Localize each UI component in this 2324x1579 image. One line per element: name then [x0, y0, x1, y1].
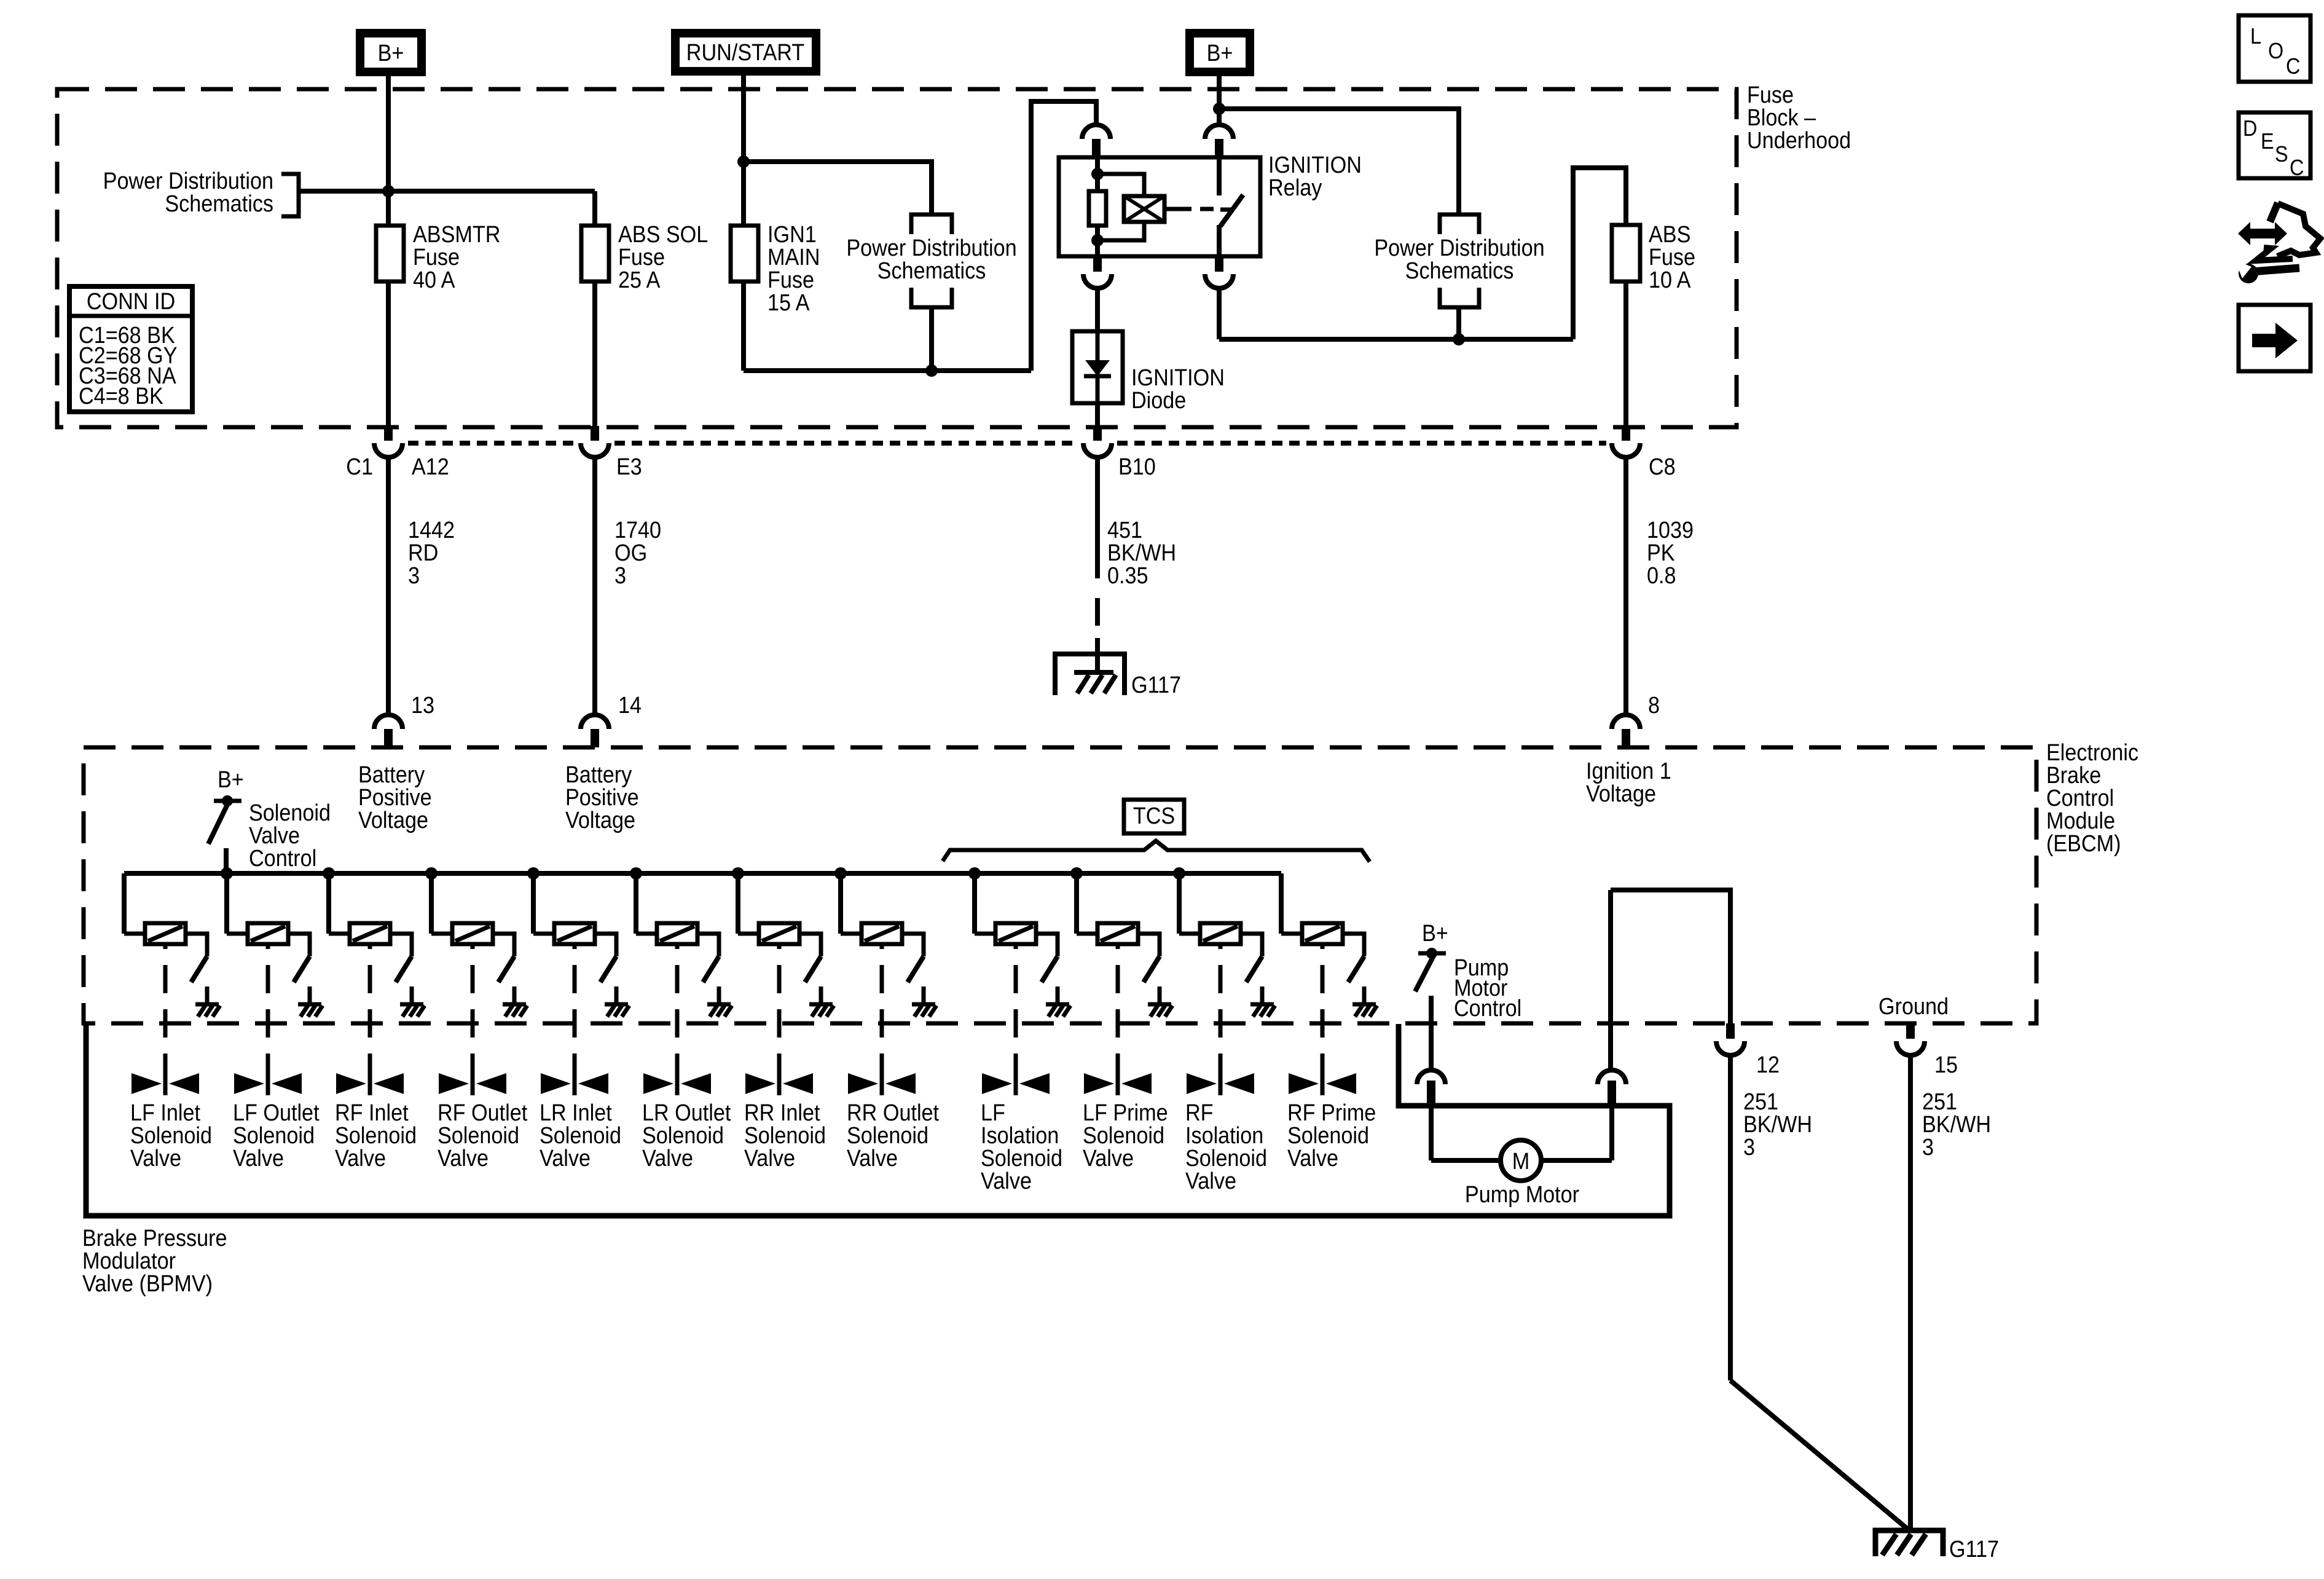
wire ABS SOL fuse to connector E3: [592, 282, 597, 427]
svg-text:L: L: [2250, 24, 2261, 49]
B+ flag: pump motor control: [1422, 919, 1448, 946]
label: LF Prime Solenoid valve: [1083, 1099, 1168, 1171]
wire B+ right branch: [1219, 109, 1459, 215]
wire B+ down to ABSMTR fuse: [386, 72, 391, 226]
label: Electronic Brake Control Module (EBCM): [2046, 739, 2138, 856]
TCS brace: [943, 841, 1370, 862]
valve symbol 9: [982, 1073, 1012, 1094]
TCS box: [1124, 800, 1184, 833]
ground (chassis) 6: [707, 1002, 731, 1007]
svg-text:8: 8: [1648, 691, 1660, 718]
svg-text:B10: B10: [1118, 453, 1156, 479]
valve symbol 3: [336, 1073, 366, 1094]
wire to valve 7 (dashed): [777, 944, 782, 1072]
ground (chassis) 7: [809, 1002, 833, 1007]
svg-text:E3: E3: [616, 453, 642, 479]
switch 10: [1144, 956, 1160, 982]
svg-text:CONN ID: CONN ID: [87, 288, 175, 314]
switch 12: [1348, 956, 1364, 982]
icon: schematic navigation (arrows + wrench): [2238, 222, 2287, 245]
svg-text:M: M: [1512, 1148, 1529, 1174]
wire 251 BK/WH 3 (pin 12): [1728, 1055, 1733, 1380]
component box Power Distribution Schematics (right): [1440, 215, 1479, 234]
relay actuation dashed link: [1164, 207, 1178, 211]
valve symbol 1: [132, 1073, 162, 1094]
ground G117 (lower): [1875, 1530, 1943, 1556]
svg-text:B+: B+: [1422, 919, 1448, 946]
pump motor M: [1429, 1106, 1434, 1160]
power flag RUN/START: [675, 33, 816, 71]
BPMV box outline: [86, 1024, 1670, 1216]
wire to valve 2 (dashed): [266, 944, 270, 1072]
solenoid driver 5 (LR Inlet Solenoid): [527, 867, 540, 880]
valve symbol 7: [745, 1073, 775, 1094]
svg-text:TCS: TCS: [1133, 802, 1175, 829]
icon: DESC box: [2239, 112, 2310, 178]
wire relay coil to diode: [1095, 288, 1100, 331]
wire to valve 5 (dashed): [573, 944, 577, 1072]
svg-text:E: E: [2261, 129, 2274, 154]
wire to valve 3 (dashed): [368, 944, 372, 1072]
valve symbol 8: [848, 1073, 878, 1094]
wire to valve 12 (dashed): [1321, 944, 1325, 1072]
fuse ABSMTR 40 A: [376, 226, 404, 282]
wire ABSMTR fuse to connector C1: [386, 282, 391, 427]
wire up to ignition relay coil: [1031, 101, 1096, 371]
connector B10: [1093, 426, 1102, 441]
solenoid driver 2 (LF Outlet Solenoid): [221, 867, 233, 880]
valve symbol 12: [1289, 1073, 1319, 1094]
label: Brake Pressure Modulator Valve (BPMV): [82, 1224, 227, 1296]
solenoid driver 8 (RR Outlet Solenoid): [834, 867, 847, 880]
wire RUN/START down: [741, 71, 746, 226]
valve symbol 6: [643, 1073, 673, 1094]
fuse ABS SOL 25 A: [581, 226, 609, 282]
wire bracket to ABS SOL branch: [299, 189, 595, 194]
switch 2: [294, 956, 310, 982]
solenoid driver 9 (LF Isolation): [968, 867, 981, 880]
ground (chassis) 4: [503, 1002, 526, 1007]
svg-text:Ground: Ground: [1878, 993, 1949, 1019]
wire to valve 9 (dashed): [1014, 944, 1018, 1072]
icon: LOC box: [2239, 15, 2310, 82]
ground (chassis) 11: [1250, 1002, 1274, 1007]
solenoid driver 3 (RF Inlet Solenoid): [323, 867, 335, 880]
wire to valve 8 (dashed): [880, 944, 884, 1072]
solenoid driver 10 (LF Prime Solenoid): [1070, 867, 1083, 880]
connector row dotted line (C1/C2 68-way): [408, 441, 575, 446]
EBCM pin 8: [1612, 715, 1640, 729]
wire 1740 OG 3: [592, 457, 597, 715]
switch 11: [1246, 956, 1262, 982]
connector C8: [1622, 426, 1630, 441]
solenoid driver 11 (RF Isolation): [1173, 867, 1185, 880]
label: Ignition 1 Voltage: [1586, 757, 1671, 806]
node: RUN/START junction: [737, 156, 750, 168]
svg-text:D: D: [2243, 116, 2257, 141]
connector: relay coil terminal (bottom): [1093, 256, 1102, 272]
node: B+ / Power Distribution junction: [382, 185, 395, 197]
label: LF Inlet Solenoid valve: [130, 1099, 212, 1171]
label: RF Prime Solenoid valve: [1287, 1099, 1376, 1171]
EBCM pin 15: [1906, 1023, 1915, 1039]
fuse IGN1 MAIN 15 A: [731, 226, 758, 282]
svg-text:C1: C1: [346, 453, 373, 479]
svg-text:A12: A12: [412, 453, 449, 479]
svg-text:C: C: [2286, 54, 2300, 79]
switch 1: [191, 956, 207, 982]
diode IGNITION (boxed): [1072, 331, 1123, 403]
svg-text:15: 15: [1934, 1051, 1958, 1077]
svg-text:B+: B+: [378, 39, 404, 66]
wire 251 BK/WH 3 (pin 15): [1908, 1055, 1913, 1530]
wire to valve 11 (dashed): [1219, 944, 1223, 1072]
wire PDS right bottom to relay switch output: [1456, 307, 1461, 339]
svg-text:ABSFuse10 A: ABSFuse10 A: [1649, 221, 1695, 293]
wire to Power Distribution Schematics (mid): [744, 162, 932, 215]
valve symbol 2: [234, 1073, 264, 1094]
valve symbol 4: [439, 1073, 469, 1094]
connector E3: [591, 426, 599, 441]
node: PDS mid bottom junction: [925, 364, 938, 377]
valve symbol 11: [1187, 1073, 1217, 1094]
svg-text:B+: B+: [1207, 39, 1233, 66]
switch 5: [600, 956, 616, 982]
label: Fuse Block - Underhood: [1747, 81, 1851, 153]
label: RR Outlet Solenoid valve: [847, 1099, 939, 1171]
B+ flag: solenoid valve control: [218, 766, 244, 792]
label: RF Inlet Solenoid valve: [335, 1099, 417, 1171]
solenoid driver 1 (LF Inlet Solenoid): [122, 873, 127, 934]
svg-text:RUN/START: RUN/START: [686, 39, 804, 65]
wire to valve 1 (dashed): [163, 944, 168, 1072]
wire relay switch output run: [1217, 288, 1222, 339]
label: LR Inlet Solenoid valve: [540, 1099, 621, 1171]
wire to ABS SOL fuse: [592, 191, 597, 226]
svg-text:Pump Motor: Pump Motor: [1465, 1181, 1579, 1207]
wire 1442 RD 3: [386, 457, 391, 715]
connector: relay switch terminal (bottom): [1215, 256, 1223, 272]
svg-text:BatteryPositiveVoltage: BatteryPositiveVoltage: [358, 761, 432, 833]
connector: pump motor return (BPMV): [1598, 1070, 1626, 1084]
connector: pump motor feed (BPMV): [1417, 1070, 1445, 1084]
wire to valve 10 (dashed): [1116, 944, 1120, 1072]
ground (chassis) 3: [400, 1002, 423, 1007]
label: Battery Positive Voltage (pin13): [358, 761, 432, 833]
label: RF Isolation valve: [1185, 1099, 1267, 1194]
EBCM pin 14: [581, 715, 609, 729]
switch 8: [908, 956, 924, 982]
ground G117 (upper): [1055, 654, 1125, 695]
label: LF Isolation valve: [981, 1099, 1062, 1194]
power flag B+ (right): [1190, 33, 1250, 72]
svg-text:13: 13: [411, 691, 434, 718]
ground (chassis) 10: [1148, 1002, 1171, 1007]
ground (chassis) 8: [912, 1002, 935, 1007]
wire B+ right to relay switch: [1217, 72, 1222, 125]
ground (chassis) 9: [1046, 1002, 1069, 1007]
connector: relay switch terminal (top): [1205, 125, 1233, 139]
EBCM dashed box: [84, 747, 2036, 1023]
svg-text:C8: C8: [1649, 453, 1676, 479]
connector C1 pin A12: [384, 426, 393, 441]
ground (chassis) 5: [605, 1002, 628, 1007]
label: LF Outlet Solenoid valve: [233, 1099, 320, 1171]
switch 6: [703, 956, 719, 982]
wire diode to connector B10: [1095, 403, 1100, 427]
svg-text:B+: B+: [218, 766, 244, 792]
switch 9: [1042, 956, 1058, 982]
CONN ID table: [69, 286, 192, 412]
solenoid driver 4 (RF Outlet Solenoid): [425, 867, 438, 880]
relay coil (box with X): [1097, 174, 1144, 196]
ground (chassis) 2: [298, 1002, 321, 1007]
wire ABS fuse to connector C8: [1623, 282, 1628, 427]
svg-text:G117: G117: [1949, 1535, 1999, 1562]
switch 3: [396, 956, 412, 982]
svg-text:C: C: [2290, 156, 2304, 180]
label: RR Inlet Solenoid valve: [744, 1099, 826, 1171]
svg-text:BatteryPositiveVoltage: BatteryPositiveVoltage: [565, 761, 639, 833]
svg-text:12: 12: [1756, 1051, 1780, 1077]
svg-text:S: S: [2275, 142, 2288, 167]
solenoid driver 7 (RR Inlet Solenoid): [732, 867, 744, 880]
ground (chassis) 12: [1352, 1002, 1376, 1007]
wire 451 BK/WH 0.35: [1095, 457, 1100, 578]
power flag B+ (left): [360, 33, 422, 72]
valve symbol 5: [541, 1073, 571, 1094]
wire to valve 4 (dashed): [471, 944, 475, 1072]
relay switch: [1217, 157, 1222, 195]
component box Power Distribution Schematics (mid): [911, 215, 952, 234]
ground (chassis) 1: [195, 1002, 219, 1007]
solenoid driver 6 (LR Outlet Solenoid): [630, 867, 642, 880]
svg-text:G117: G117: [1131, 671, 1181, 698]
wire pump return through EBCM: [1608, 890, 1613, 1070]
label: LR Outlet Solenoid valve: [642, 1099, 731, 1171]
label: Ground: [1878, 993, 1949, 1019]
wire to valve 6 (dashed): [675, 944, 680, 1072]
label: RF Outlet Solenoid valve: [438, 1099, 527, 1171]
connector: relay coil terminal (top): [1082, 125, 1110, 139]
solenoid driver 12 (RF Prime Solenoid): [1279, 873, 1284, 934]
switch 4: [498, 956, 514, 982]
relay IGNITION box: [1059, 157, 1260, 256]
pump motor return wire: [1541, 1158, 1612, 1163]
wire IGN1 fuse bottom run: [741, 282, 746, 371]
off-page bracket Power Distribution Schematics (left): [281, 174, 299, 216]
valve symbol 10: [1084, 1073, 1114, 1094]
switch 7: [805, 956, 821, 982]
solenoid supply bus: [124, 871, 1281, 876]
wire 1039 PK 0.8: [1623, 457, 1628, 715]
svg-text:C1=68 BKC2=68 GYC3=68 NAC4=8 B: C1=68 BKC2=68 GYC3=68 NAC4=8 BK: [79, 321, 178, 409]
svg-text:O: O: [2268, 39, 2283, 63]
relay internal wire + resistor: [1095, 157, 1100, 191]
svg-text:14: 14: [618, 691, 642, 718]
icon: arrow box: [2239, 305, 2310, 371]
label: Battery Positive Voltage (pin14): [565, 761, 639, 833]
fuse block underhood dashed box: [57, 89, 1737, 427]
fuse ABS 10 A: [1612, 225, 1640, 282]
EBCM pin 13: [374, 715, 402, 729]
EBCM pin 12: [1726, 1023, 1735, 1039]
